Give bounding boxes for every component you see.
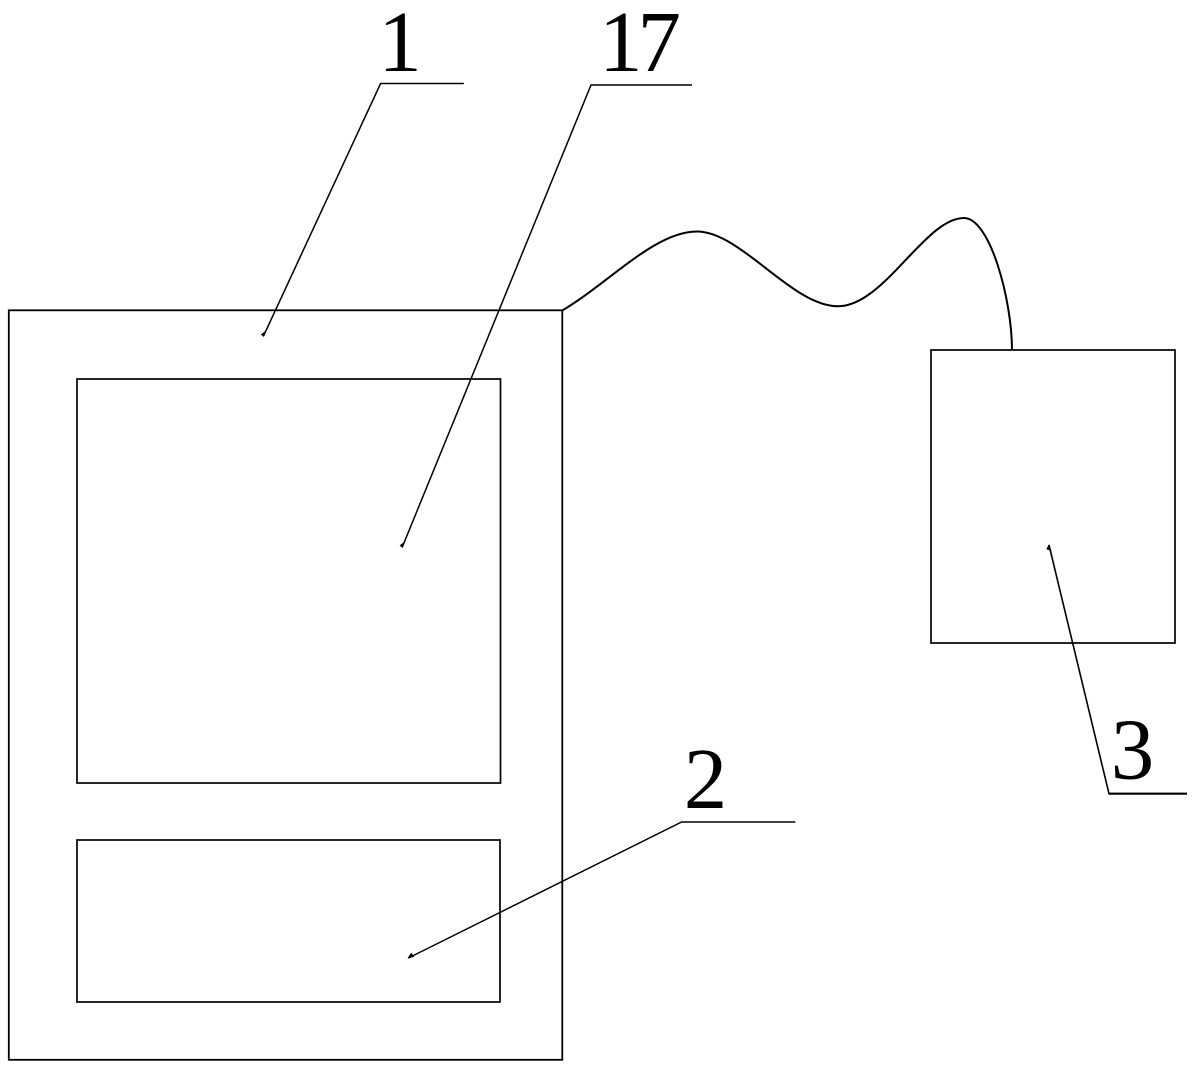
svg-text:1: 1 — [378, 0, 422, 90]
leader line for label 3 — [1049, 545, 1187, 794]
arrow tick at end of leader 17 — [400, 541, 406, 548]
arrow tick at end of leader 2 — [408, 953, 415, 959]
svg-text:2: 2 — [684, 730, 728, 827]
leader line 3 horizontal overdraw (thicker) — [1109, 793, 1187, 795]
device housing 1 (outer rectangle) — [9, 310, 563, 1060]
svg-text:17: 17 — [599, 0, 679, 90]
leader line for label 1 — [264, 84, 464, 337]
external unit 3 (right rectangle) — [931, 350, 1175, 643]
svg-text:3: 3 — [1111, 701, 1155, 798]
arrow tick at end of leader 1 — [261, 330, 267, 337]
display panel 17 (inner square) — [77, 379, 501, 783]
leader line for label 17 — [402, 85, 692, 547]
connecting cable (wavy line) — [563, 218, 1013, 350]
leader line for label 2 — [408, 822, 795, 958]
arrow tick at end of leader 3 — [1046, 544, 1051, 551]
lower panel 2 (inner rectangle) — [77, 840, 500, 1002]
